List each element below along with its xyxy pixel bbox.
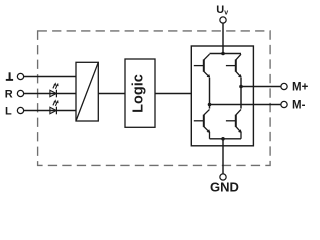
svg-text:L: L xyxy=(5,106,12,118)
svg-text:R: R xyxy=(5,88,13,100)
svg-text:M+: M+ xyxy=(292,81,309,93)
svg-text:GND: GND xyxy=(210,180,239,195)
svg-text:v: v xyxy=(224,10,228,17)
svg-text:U: U xyxy=(216,4,224,16)
svg-text:Logic: Logic xyxy=(131,74,147,113)
svg-text:M-: M- xyxy=(292,99,306,111)
